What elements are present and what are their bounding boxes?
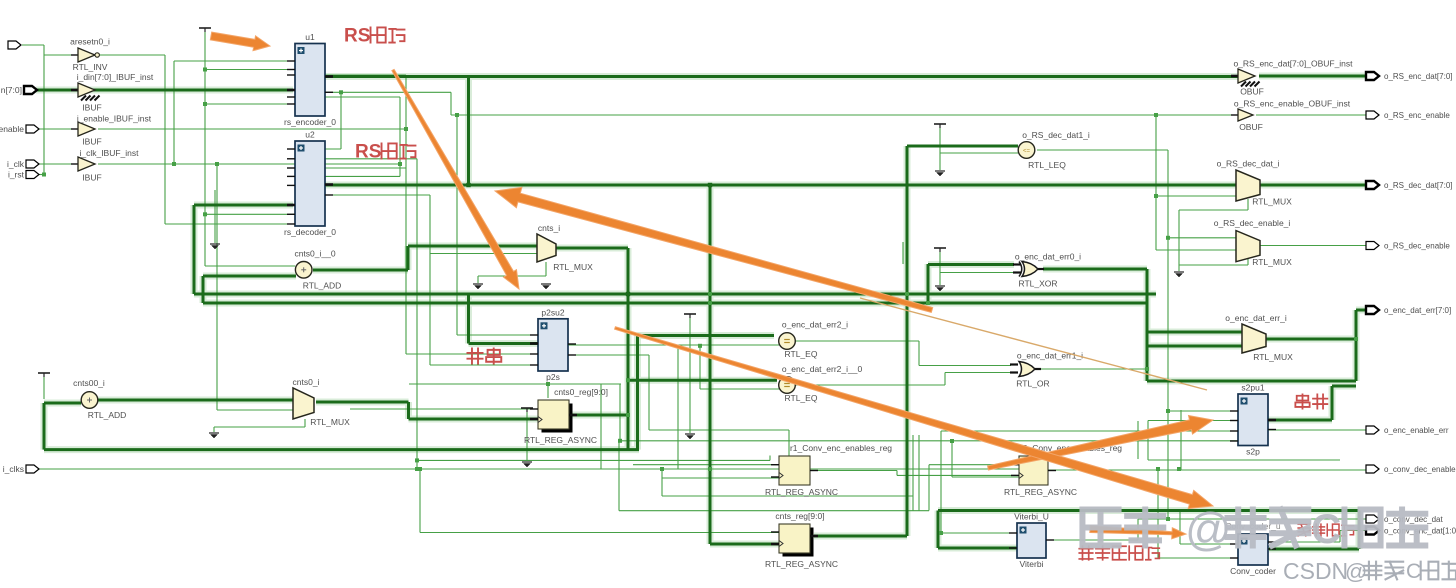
svg-text:Viterbi_U: Viterbi_U <box>1014 512 1049 522</box>
svg-text:cnts0_i__0: cnts0_i__0 <box>294 249 335 259</box>
svg-text:RS: RS <box>355 142 381 163</box>
svg-text:Viterbi: Viterbi <box>1020 559 1044 569</box>
svg-text:cnts0_i: cnts0_i <box>293 377 320 387</box>
svg-text:o_enc_dat_err_i: o_enc_dat_err_i <box>1225 313 1287 323</box>
svg-text:p2su2: p2su2 <box>541 307 564 317</box>
svg-text:o_RS_dec_enable: o_RS_dec_enable <box>1384 242 1450 251</box>
svg-text:rs_decoder_0: rs_decoder_0 <box>284 227 336 237</box>
svg-text:p2s: p2s <box>546 372 560 382</box>
svg-text:o_enc_dat_err1_i: o_enc_dat_err1_i <box>1017 351 1083 361</box>
svg-text:o_RS_dec_enable_i: o_RS_dec_enable_i <box>1214 218 1291 228</box>
svg-text:o_RS_enc_dat[7:0]: o_RS_enc_dat[7:0] <box>1384 72 1453 81</box>
svg-text:RTL_REG_ASYNC: RTL_REG_ASYNC <box>765 559 838 569</box>
svg-text:o_enc_dat_err[7:0]: o_enc_dat_err[7:0] <box>1384 306 1451 315</box>
svg-text:cnts00_i: cnts00_i <box>73 378 105 388</box>
svg-text:o_conv_dec_enable: o_conv_dec_enable <box>1384 465 1456 474</box>
svg-text:r1_Conv_enc_enables_reg: r1_Conv_enc_enables_reg <box>790 443 892 453</box>
svg-text:n[7:0]: n[7:0] <box>1 85 22 95</box>
svg-text:i_clk_IBUF_inst: i_clk_IBUF_inst <box>79 148 139 158</box>
svg-text:IBUF: IBUF <box>82 103 101 113</box>
svg-text:i_din[7:0]_IBUF_inst: i_din[7:0]_IBUF_inst <box>77 72 154 82</box>
svg-text:RTL_MUX: RTL_MUX <box>1253 352 1293 362</box>
svg-text:aresetn0_i: aresetn0_i <box>70 37 110 47</box>
svg-text:<=: <= <box>1023 149 1031 155</box>
svg-text:RTL_ADD: RTL_ADD <box>88 410 127 420</box>
svg-text:o_RS_enc_dat[7:0]_OBUF_inst: o_RS_enc_dat[7:0]_OBUF_inst <box>1233 59 1353 69</box>
svg-text:RTL_ADD: RTL_ADD <box>303 281 342 291</box>
svg-text:o_enc_dat_err2_i__0: o_enc_dat_err2_i__0 <box>782 364 863 374</box>
svg-text:RTL_INV: RTL_INV <box>73 62 108 72</box>
svg-text:CSDN: CSDN <box>1283 558 1348 584</box>
svg-text:o_enc_dat_err0_i: o_enc_dat_err0_i <box>1015 252 1081 262</box>
svg-text:u2: u2 <box>305 130 315 140</box>
svg-text:i_rst: i_rst <box>8 170 25 180</box>
svg-text:i_enable_IBUF_inst: i_enable_IBUF_inst <box>77 114 152 124</box>
svg-text:RTL_MUX: RTL_MUX <box>310 417 350 427</box>
svg-text:RTL_MUX: RTL_MUX <box>1252 257 1292 267</box>
svg-text:RTL_MUX: RTL_MUX <box>553 262 593 272</box>
svg-text:Conv_coder: Conv_coder <box>1230 566 1276 576</box>
svg-text:s2pu1: s2pu1 <box>1241 383 1264 393</box>
svg-text:C: C <box>1406 560 1421 583</box>
svg-text:o_enc_dat_err2_i: o_enc_dat_err2_i <box>782 320 848 330</box>
svg-text:RTL_REG_ASYNC: RTL_REG_ASYNC <box>1004 487 1077 497</box>
svg-text:OBUF: OBUF <box>1240 87 1264 97</box>
svg-text:RTL_LEQ: RTL_LEQ <box>1028 160 1066 170</box>
svg-text:cnts_reg[9:0]: cnts_reg[9:0] <box>775 511 824 521</box>
svg-text:IBUF: IBUF <box>82 173 101 183</box>
svg-text:cnts0_reg[9:0]: cnts0_reg[9:0] <box>554 387 608 397</box>
svg-text:RTL_REG_ASYNC: RTL_REG_ASYNC <box>524 435 597 445</box>
svg-text:u1: u1 <box>305 32 315 42</box>
svg-text:cnts_i: cnts_i <box>538 223 560 233</box>
svg-text:rs_encoder_0: rs_encoder_0 <box>284 117 336 127</box>
svg-text:o_RS_dec_dat1_i: o_RS_dec_dat1_i <box>1022 130 1090 140</box>
svg-text:RTL_XOR: RTL_XOR <box>1018 279 1057 289</box>
svg-text:o_RS_enc_enable: o_RS_enc_enable <box>1384 111 1450 120</box>
svg-text:o_RS_dec_dat_i: o_RS_dec_dat_i <box>1217 159 1280 169</box>
svg-text:s2p: s2p <box>1246 447 1260 457</box>
svg-text:C: C <box>1311 505 1341 552</box>
svg-text:o_RS_enc_enable_OBUF_inst: o_RS_enc_enable_OBUF_inst <box>1234 99 1351 109</box>
svg-text:o_RS_dec_dat[7:0]: o_RS_dec_dat[7:0] <box>1384 181 1453 190</box>
svg-text:RTL_EQ: RTL_EQ <box>785 393 818 403</box>
svg-text:RTL_OR: RTL_OR <box>1016 379 1049 389</box>
svg-text:OBUF: OBUF <box>1239 122 1263 132</box>
svg-text:i_clks: i_clks <box>3 464 24 474</box>
svg-text:o_enc_enable_err: o_enc_enable_err <box>1384 426 1449 435</box>
svg-text:RTL_MUX: RTL_MUX <box>1252 197 1292 207</box>
svg-text:IBUF: IBUF <box>82 137 101 147</box>
svg-text:i_clk: i_clk <box>7 159 25 169</box>
svg-text:RS: RS <box>344 26 370 47</box>
svg-text:RTL_EQ: RTL_EQ <box>785 349 818 359</box>
svg-text:RTL_REG_ASYNC: RTL_REG_ASYNC <box>765 487 838 497</box>
svg-text:enable: enable <box>0 124 24 134</box>
